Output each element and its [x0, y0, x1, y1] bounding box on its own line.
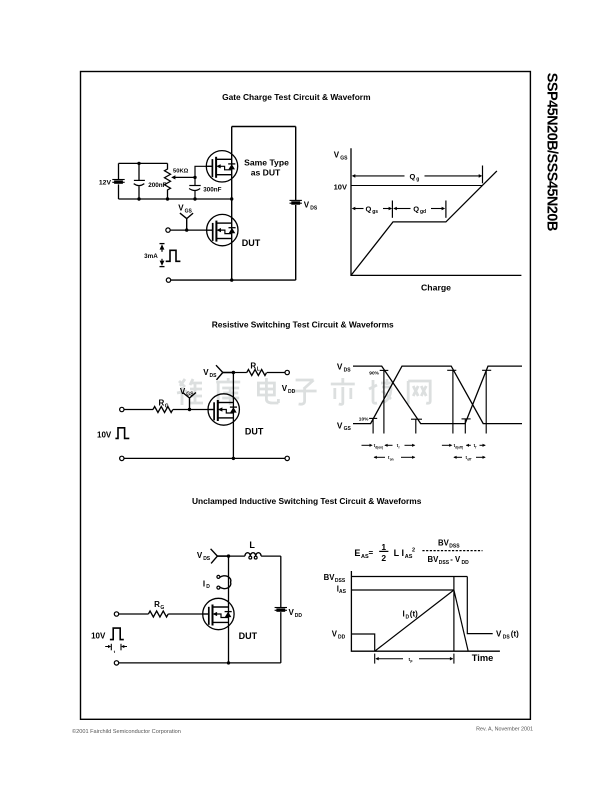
probe VGS	[183, 393, 196, 409]
svg-text:GS: GS	[340, 156, 348, 162]
svg-text:gd: gd	[420, 209, 426, 215]
svg-text:BV: BV	[324, 573, 336, 582]
terminal bottom left	[114, 661, 118, 665]
node: junction VGS probe	[188, 408, 191, 411]
svg-text:V: V	[334, 150, 340, 159]
node: junction 200nF bottom	[137, 197, 140, 200]
graph2 long tick 4	[452, 370, 454, 433]
svg-text:DD: DD	[295, 613, 303, 619]
terminal input	[120, 407, 124, 411]
graph1 Qgs arrow	[353, 208, 364, 210]
graph2 VGS trace	[353, 366, 522, 424]
svg-text:V: V	[496, 630, 502, 639]
node: junction wiper/300nF/gate	[193, 176, 196, 179]
svg-text:V: V	[304, 201, 310, 210]
battery VDD supply	[275, 608, 287, 612]
svg-text:Q: Q	[413, 204, 419, 213]
wire 200nF lower lead	[138, 186, 140, 199]
svg-text:DD: DD	[462, 560, 470, 566]
wire gate of DUT	[170, 229, 213, 231]
capacitor 200nF	[134, 179, 145, 181]
wire input to RG	[124, 409, 153, 411]
terminal bottom left	[166, 278, 170, 282]
wire bottom rail	[124, 457, 285, 459]
terminal gate drive	[166, 228, 170, 232]
page border frame	[81, 72, 531, 720]
svg-text:Q: Q	[366, 204, 372, 213]
svg-text:d(on): d(on)	[375, 445, 383, 449]
watermark faint text	[177, 378, 430, 405]
svg-text:10V: 10V	[334, 182, 347, 191]
wire left branch upper	[118, 163, 120, 179]
graph2 VDS trace	[353, 366, 522, 424]
wire box bottom edge	[171, 279, 296, 281]
svg-text:DD: DD	[288, 389, 296, 395]
wire right branch upper	[280, 556, 282, 607]
graph1 Qg arrow	[353, 175, 405, 177]
transistor Q2 DUT	[207, 214, 238, 245]
svg-text:200nF: 200nF	[148, 182, 166, 189]
battery 12V	[112, 180, 124, 184]
svg-text:V: V	[337, 420, 343, 430]
wire left branch lower	[118, 184, 120, 199]
svg-text:I: I	[203, 579, 205, 588]
svg-text:DSS: DSS	[335, 578, 346, 584]
svg-text:I: I	[402, 548, 405, 558]
svg-text:R: R	[250, 362, 256, 371]
svg-text:=: =	[369, 549, 374, 558]
terminal bottom right	[285, 456, 289, 460]
node: junction 200nF top	[137, 162, 140, 165]
node: junction top	[227, 554, 230, 557]
node: junction pot bottom	[166, 197, 169, 200]
pulse width marker arrows	[105, 646, 110, 648]
svg-text:V: V	[282, 384, 288, 393]
node: junction source/bottom rail	[232, 457, 235, 460]
graph1 tick plateau end	[445, 201, 447, 218]
svg-text:- V: - V	[450, 555, 461, 564]
graph3 IAS level line	[351, 589, 454, 591]
svg-text:2: 2	[381, 553, 386, 563]
svg-text:10V: 10V	[91, 631, 106, 640]
svg-text:GS: GS	[185, 209, 193, 215]
svg-text:DS: DS	[210, 373, 218, 379]
wire right branch lower	[280, 612, 282, 663]
wire input to RG	[119, 613, 149, 615]
svg-text:p: p	[410, 659, 412, 663]
graph2 td(on) lead arrow	[362, 444, 370, 446]
svg-text:(t): (t)	[511, 630, 519, 639]
graph3 ID ramp	[375, 590, 454, 651]
svg-text:(t): (t)	[410, 610, 418, 619]
graph2 td(off) lead arrow	[442, 444, 450, 446]
svg-text:R: R	[159, 399, 165, 408]
svg-text:gs: gs	[372, 209, 378, 215]
wire drain to RL	[233, 372, 246, 374]
svg-text:Unclamped Inductive Switching: Unclamped Inductive Switching Test Circu…	[192, 496, 422, 506]
resistor RL	[247, 370, 267, 376]
svg-text:DUT: DUT	[242, 238, 261, 248]
svg-text:V: V	[337, 362, 343, 372]
svg-text:L: L	[257, 366, 260, 372]
svg-text:d(off): d(off)	[455, 445, 463, 449]
current source 3mA down arrow	[161, 259, 163, 261]
svg-text:10V: 10V	[97, 431, 112, 440]
graph3 VDS drop	[467, 577, 492, 634]
wire 200nF upper lead	[138, 163, 140, 180]
graph2 long tick 5	[464, 419, 466, 434]
svg-text:G: G	[160, 605, 164, 611]
pulse symbol input	[110, 628, 124, 640]
wire bottom rail	[119, 662, 281, 664]
graph3 tp marker	[374, 654, 376, 664]
graph3 axes	[351, 571, 500, 651]
resistor RG	[148, 611, 168, 617]
transistor DUT	[208, 394, 239, 425]
wire bottom rail	[119, 198, 232, 200]
graph2 toff arrow	[454, 456, 462, 458]
graph2 ton arrow	[374, 456, 385, 458]
svg-text:AS: AS	[405, 554, 413, 560]
svg-text:V: V	[197, 551, 203, 560]
svg-text:Rev. A, November 2001: Rev. A, November 2001	[476, 727, 533, 733]
node: junction drain	[232, 371, 235, 374]
svg-text:©2001 Fairchild Semiconductor: ©2001 Fairchild Semiconductor Corporatio…	[72, 728, 181, 735]
svg-text:Resistive Switching Test Circu: Resistive Switching Test Circuit & Wavef…	[212, 319, 394, 329]
wire top rail to L	[229, 555, 245, 557]
svg-text:BV: BV	[428, 555, 440, 564]
svg-text:Charge: Charge	[421, 283, 451, 293]
svg-text:GS: GS	[186, 392, 194, 398]
svg-text:R: R	[154, 600, 160, 609]
node: junction source/bottom	[227, 661, 230, 664]
probe VDS	[216, 365, 223, 380]
terminal input	[114, 612, 118, 616]
graph2 long tick 3	[415, 419, 417, 434]
wire box right edge upper	[295, 127, 297, 201]
svg-text:90%: 90%	[369, 370, 379, 376]
pulse symbol 3mA drive	[166, 250, 181, 261]
graph2 level tick 90 left	[380, 369, 389, 371]
wire RG to gate	[168, 613, 209, 615]
graph2 level tick 10 mid	[411, 418, 422, 420]
graph2 level tick 10 right	[462, 418, 471, 420]
probe VGS	[180, 213, 193, 229]
graph3 BVDSS level line	[351, 576, 467, 578]
graph2 tf arrow	[466, 444, 471, 446]
current probe ID loop	[217, 575, 220, 578]
wire box top edge	[232, 126, 296, 128]
svg-text:SSP45N20B/SSS45N20B: SSP45N20B/SSS45N20B	[544, 73, 560, 232]
svg-text:BV: BV	[438, 539, 450, 548]
wire wiper to gate of Q1	[195, 166, 212, 177]
svg-text:V: V	[332, 630, 338, 639]
svg-text:I: I	[403, 610, 405, 619]
wiper arrow of potentiometer	[175, 176, 195, 178]
graph3 VDD step	[351, 634, 374, 651]
svg-text:E: E	[354, 548, 360, 558]
svg-text:Same Type: Same Type	[244, 157, 289, 167]
svg-text:DS: DS	[203, 556, 211, 562]
graph1 10V level line	[351, 185, 482, 187]
svg-text:300nF: 300nF	[203, 186, 221, 193]
resistor RG	[153, 407, 173, 413]
svg-text:DS: DS	[344, 368, 352, 374]
graph1 Qgd arrow	[395, 208, 411, 210]
svg-text:DUT: DUT	[239, 631, 258, 641]
wire drain vertical	[232, 373, 234, 459]
wire top rail	[119, 162, 168, 164]
graph2 level tick 90 right2	[482, 369, 491, 371]
wire VDS probe to drain node	[217, 555, 228, 557]
node: junction VGS probe	[185, 228, 188, 231]
svg-text:Gate Charge Test Circuit & Wav: Gate Charge Test Circuit & Waveform	[222, 92, 370, 102]
potentiometer 50Kohm	[165, 163, 171, 199]
svg-text:V: V	[289, 608, 295, 617]
graph2 tr arrow	[385, 444, 393, 446]
node: junction 300nF bottom	[193, 197, 196, 200]
graph2 level tick 90 right1	[447, 369, 456, 371]
wire VDS probe to drain node	[223, 372, 234, 374]
terminal VDD	[285, 370, 289, 374]
graph2 long tick 6	[485, 370, 487, 433]
transistor Q1 Same Type as DUT	[206, 151, 237, 182]
svg-text:G: G	[165, 403, 169, 409]
svg-text:Time: Time	[472, 653, 494, 663]
battery VDS supply	[290, 200, 302, 204]
svg-text:L: L	[249, 540, 255, 550]
svg-text:on: on	[390, 458, 394, 462]
svg-text:2: 2	[412, 548, 415, 554]
node: junction bottom rail to source line	[230, 197, 233, 200]
wire box right edge lower	[295, 205, 297, 280]
svg-text:DS: DS	[310, 205, 318, 211]
svg-text:50KΩ: 50KΩ	[173, 168, 189, 174]
node: junction DUT source to bottom	[230, 278, 233, 281]
svg-text:AS: AS	[339, 589, 347, 595]
svg-text:12V: 12V	[99, 180, 112, 187]
graph3 peak vertical line	[453, 577, 455, 652]
svg-text:L: L	[394, 548, 400, 558]
svg-text:g: g	[416, 177, 419, 183]
wire RL to VDD terminal	[267, 372, 285, 374]
wire L to right corner	[261, 555, 281, 557]
graph1 gate charge curve	[351, 171, 497, 276]
pulse symbol input	[115, 428, 129, 439]
svg-text:DD: DD	[338, 634, 346, 640]
graph2 level tick 10 left	[369, 417, 377, 419]
graph1 tick Qg end	[482, 166, 484, 184]
wire drain-source vertical line (box left edge)	[231, 127, 233, 281]
svg-text:V: V	[203, 368, 209, 377]
svg-text:Q: Q	[410, 172, 416, 181]
graph3 ID fall line	[454, 590, 468, 651]
graph1 axes	[351, 148, 521, 275]
capacitor 300nF	[194, 177, 196, 185]
transistor DUT	[203, 598, 234, 629]
graph2 long tick 2	[383, 370, 385, 433]
graph1 tick plateau start	[391, 201, 393, 218]
svg-text:3mA: 3mA	[144, 253, 158, 260]
terminal bottom left	[120, 456, 124, 460]
svg-text:GS: GS	[344, 426, 352, 432]
svg-text:D: D	[206, 584, 210, 590]
svg-text:1: 1	[381, 542, 386, 552]
svg-text:10%: 10%	[359, 416, 369, 422]
svg-text:DS: DS	[503, 634, 511, 640]
wire RG to gate	[173, 409, 214, 411]
svg-text:DUT: DUT	[245, 427, 264, 437]
probe VDS	[211, 549, 218, 564]
inductor L	[245, 553, 261, 556]
svg-text:V: V	[178, 204, 184, 213]
svg-text:DSS: DSS	[449, 543, 460, 549]
current source 3mA up arrow	[160, 243, 165, 245]
wire drain vertical	[228, 556, 230, 663]
svg-text:DSS: DSS	[439, 560, 450, 566]
svg-text:V: V	[180, 387, 186, 396]
graph2 long tick 1	[372, 418, 374, 433]
svg-text:as DUT: as DUT	[251, 168, 281, 178]
